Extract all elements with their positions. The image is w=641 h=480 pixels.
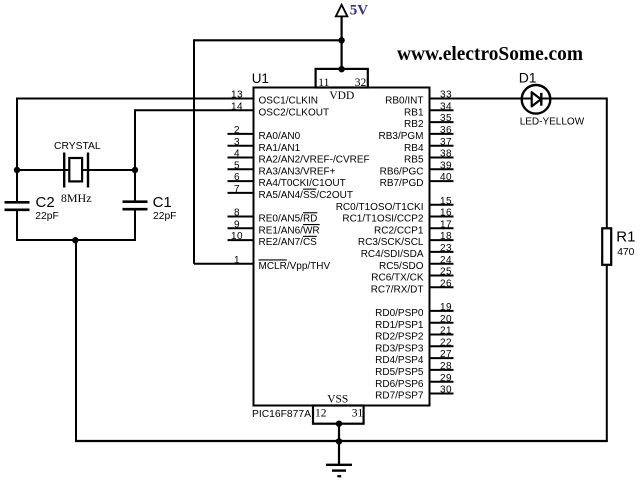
svg-text:RA1/AN1: RA1/AN1 <box>259 143 301 154</box>
svg-text:OSC2/CLKOUT: OSC2/CLKOUT <box>259 107 330 118</box>
svg-text:27: 27 <box>440 349 452 360</box>
svg-text:RC3/SCK/SCL: RC3/SCK/SCL <box>358 237 424 248</box>
svg-text:RD0/PSP0: RD0/PSP0 <box>375 308 424 319</box>
svg-text:19: 19 <box>440 302 452 313</box>
svg-text:18: 18 <box>440 231 452 242</box>
svg-text:24: 24 <box>440 255 452 266</box>
svg-text:RA3/AN3/VREF+: RA3/AN3/VREF+ <box>259 166 336 177</box>
svg-text:U1: U1 <box>252 71 269 86</box>
svg-text:RC0/T1OSO/T1CKI: RC0/T1OSO/T1CKI <box>336 202 424 213</box>
svg-text:RD4/PSP4: RD4/PSP4 <box>375 355 424 366</box>
svg-text:VSS: VSS <box>327 394 348 406</box>
svg-text:11: 11 <box>318 77 329 89</box>
svg-text:RD1/PSP1: RD1/PSP1 <box>375 320 424 331</box>
svg-text:14: 14 <box>231 101 243 112</box>
svg-text:34: 34 <box>440 101 452 112</box>
svg-text:RA0/AN0: RA0/AN0 <box>259 131 301 142</box>
svg-text:CRYSTAL: CRYSTAL <box>54 141 101 152</box>
svg-text:RA2/AN2/VREF-/CVREF: RA2/AN2/VREF-/CVREF <box>259 155 370 166</box>
svg-text:VDD: VDD <box>329 90 354 102</box>
svg-text:20: 20 <box>440 314 452 325</box>
svg-text:RE1/AN6/WR: RE1/AN6/WR <box>259 225 320 236</box>
svg-text:RE0/AN5/RD: RE0/AN5/RD <box>259 214 318 225</box>
svg-text:30: 30 <box>440 385 452 396</box>
svg-text:RD2/PSP2: RD2/PSP2 <box>375 332 424 343</box>
svg-text:12: 12 <box>315 407 327 419</box>
svg-text:29: 29 <box>440 373 452 384</box>
svg-text:RD3/PSP3: RD3/PSP3 <box>375 343 424 354</box>
svg-text:MCLR/Vpp/THV: MCLR/Vpp/THV <box>259 261 331 272</box>
svg-text:28: 28 <box>440 361 452 372</box>
svg-text:RB1: RB1 <box>404 107 424 118</box>
svg-text:PIC16F877A: PIC16F877A <box>252 409 311 420</box>
svg-text:23: 23 <box>440 243 452 254</box>
svg-text:D1: D1 <box>519 70 537 86</box>
svg-text:32: 32 <box>355 77 367 89</box>
svg-text:RB4: RB4 <box>404 143 424 154</box>
svg-text:RA4/T0CKI/C1OUT: RA4/T0CKI/C1OUT <box>259 178 346 189</box>
svg-text:RB0/INT: RB0/INT <box>385 96 423 107</box>
svg-text:8MHz: 8MHz <box>61 191 92 205</box>
svg-text:37: 37 <box>440 137 452 148</box>
svg-text:5V: 5V <box>350 2 369 18</box>
svg-text:33: 33 <box>440 90 452 101</box>
svg-text:RB6/PGC: RB6/PGC <box>380 166 424 177</box>
svg-text:RA5/AN4/SS/C2OUT: RA5/AN4/SS/C2OUT <box>259 190 353 201</box>
svg-text:1: 1 <box>234 255 240 266</box>
svg-text:26: 26 <box>440 278 452 289</box>
svg-text:25: 25 <box>440 267 452 278</box>
svg-text:31: 31 <box>352 407 364 419</box>
svg-text:16: 16 <box>440 208 452 219</box>
svg-text:RC5/SDO: RC5/SDO <box>379 261 424 272</box>
svg-text:RC7/RX/DT: RC7/RX/DT <box>371 284 424 295</box>
svg-text:39: 39 <box>440 160 452 171</box>
svg-text:RB5: RB5 <box>404 155 424 166</box>
svg-text:RC4/SDI/SDA: RC4/SDI/SDA <box>361 249 424 260</box>
svg-text:4: 4 <box>234 149 240 160</box>
svg-text:38: 38 <box>440 149 452 160</box>
svg-text:6: 6 <box>234 172 240 183</box>
svg-text:13: 13 <box>231 90 243 101</box>
svg-text:C2: C2 <box>36 194 55 211</box>
svg-text:21: 21 <box>440 326 452 337</box>
svg-text:8: 8 <box>234 208 240 219</box>
svg-text:R1: R1 <box>616 228 635 245</box>
svg-text:C1: C1 <box>153 194 172 211</box>
svg-text:2: 2 <box>234 125 240 136</box>
svg-text:RD6/PSP6: RD6/PSP6 <box>375 379 424 390</box>
svg-text:470: 470 <box>617 247 634 258</box>
svg-text:RD5/PSP5: RD5/PSP5 <box>375 367 424 378</box>
svg-text:RB2: RB2 <box>404 119 424 130</box>
svg-text:RB7/PGD: RB7/PGD <box>380 178 424 189</box>
svg-text:22pF: 22pF <box>35 211 58 222</box>
svg-text:40: 40 <box>440 172 452 183</box>
svg-text:7: 7 <box>234 184 240 195</box>
svg-text:3: 3 <box>234 137 240 148</box>
svg-text:15: 15 <box>440 196 452 207</box>
svg-text:RE2/AN7/CS: RE2/AN7/CS <box>259 237 318 248</box>
svg-text:LED-YELLOW: LED-YELLOW <box>520 116 585 127</box>
svg-text:36: 36 <box>440 125 452 136</box>
svg-text:5: 5 <box>234 160 240 171</box>
svg-text:35: 35 <box>440 113 452 124</box>
svg-text:10: 10 <box>231 231 243 242</box>
svg-text:RC1/T1OSI/CCP2: RC1/T1OSI/CCP2 <box>342 214 424 225</box>
svg-text:9: 9 <box>234 219 240 230</box>
svg-text:22: 22 <box>440 337 452 348</box>
svg-text:www.electroSome.com: www.electroSome.com <box>397 43 583 65</box>
svg-text:OSC1/CLKIN: OSC1/CLKIN <box>259 96 318 107</box>
svg-text:RC2/CCP1: RC2/CCP1 <box>374 225 424 236</box>
svg-text:RC6/TX/CK: RC6/TX/CK <box>371 273 424 284</box>
svg-text:RB3/PGM: RB3/PGM <box>378 131 423 142</box>
svg-text:17: 17 <box>440 219 452 230</box>
svg-text:RD7/PSP7: RD7/PSP7 <box>375 391 424 402</box>
svg-text:22pF: 22pF <box>153 211 176 222</box>
